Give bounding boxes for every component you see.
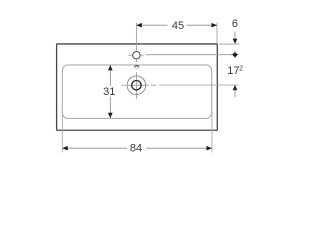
- dimension 31 arrow top: [108, 65, 113, 70]
- svg-text:31: 31: [103, 86, 115, 98]
- dimension 6 label: [232, 18, 238, 30]
- top edge extension line right: [219, 43, 239, 45]
- dimension 45 arrow right: [212, 23, 217, 28]
- dimension 45 arrow left: [136, 23, 141, 28]
- dimension 31 label: [103, 86, 115, 98]
- dimension 84 extension right: [211, 111, 213, 153]
- dimension 45 label: [172, 20, 184, 32]
- drain centerline horizontal: [122, 84, 239, 86]
- dimension 6 arrow: [233, 32, 238, 44]
- tap hole centerline vertical: [135, 23, 137, 62]
- dimension 17 arrow: [233, 85, 238, 97]
- dimension 84 arrow right: [207, 146, 212, 151]
- dimension 45 line: [136, 24, 217, 26]
- tap hole: [133, 52, 140, 59]
- svg-text:2: 2: [239, 65, 243, 72]
- dimension 31 arrow bottom: [108, 113, 113, 118]
- dimension 84 arrow left: [62, 146, 67, 151]
- svg-text:84: 84: [130, 143, 142, 155]
- drain outer circle: [127, 76, 146, 95]
- tap hole centerline horizontal: [128, 54, 233, 57]
- drain hole bold ring: [132, 81, 141, 90]
- svg-text:17: 17: [227, 65, 239, 77]
- dimension 17 label: [227, 65, 243, 77]
- overflow slot: [135, 66, 139, 69]
- dimension 84 extension left: [61, 111, 63, 153]
- dimension 45 extension right: [216, 23, 218, 44]
- dimension 31 line: [109, 65, 111, 118]
- svg-text:6: 6: [232, 18, 238, 30]
- reference dot: [232, 52, 239, 59]
- bowl inner outline: [62, 65, 211, 119]
- svg-text:45: 45: [172, 20, 184, 32]
- drain centerline vertical: [135, 72, 137, 99]
- dimension 84 label: [130, 143, 142, 155]
- dimension 84 line: [62, 147, 212, 149]
- basin outer rim: [57, 44, 218, 130]
